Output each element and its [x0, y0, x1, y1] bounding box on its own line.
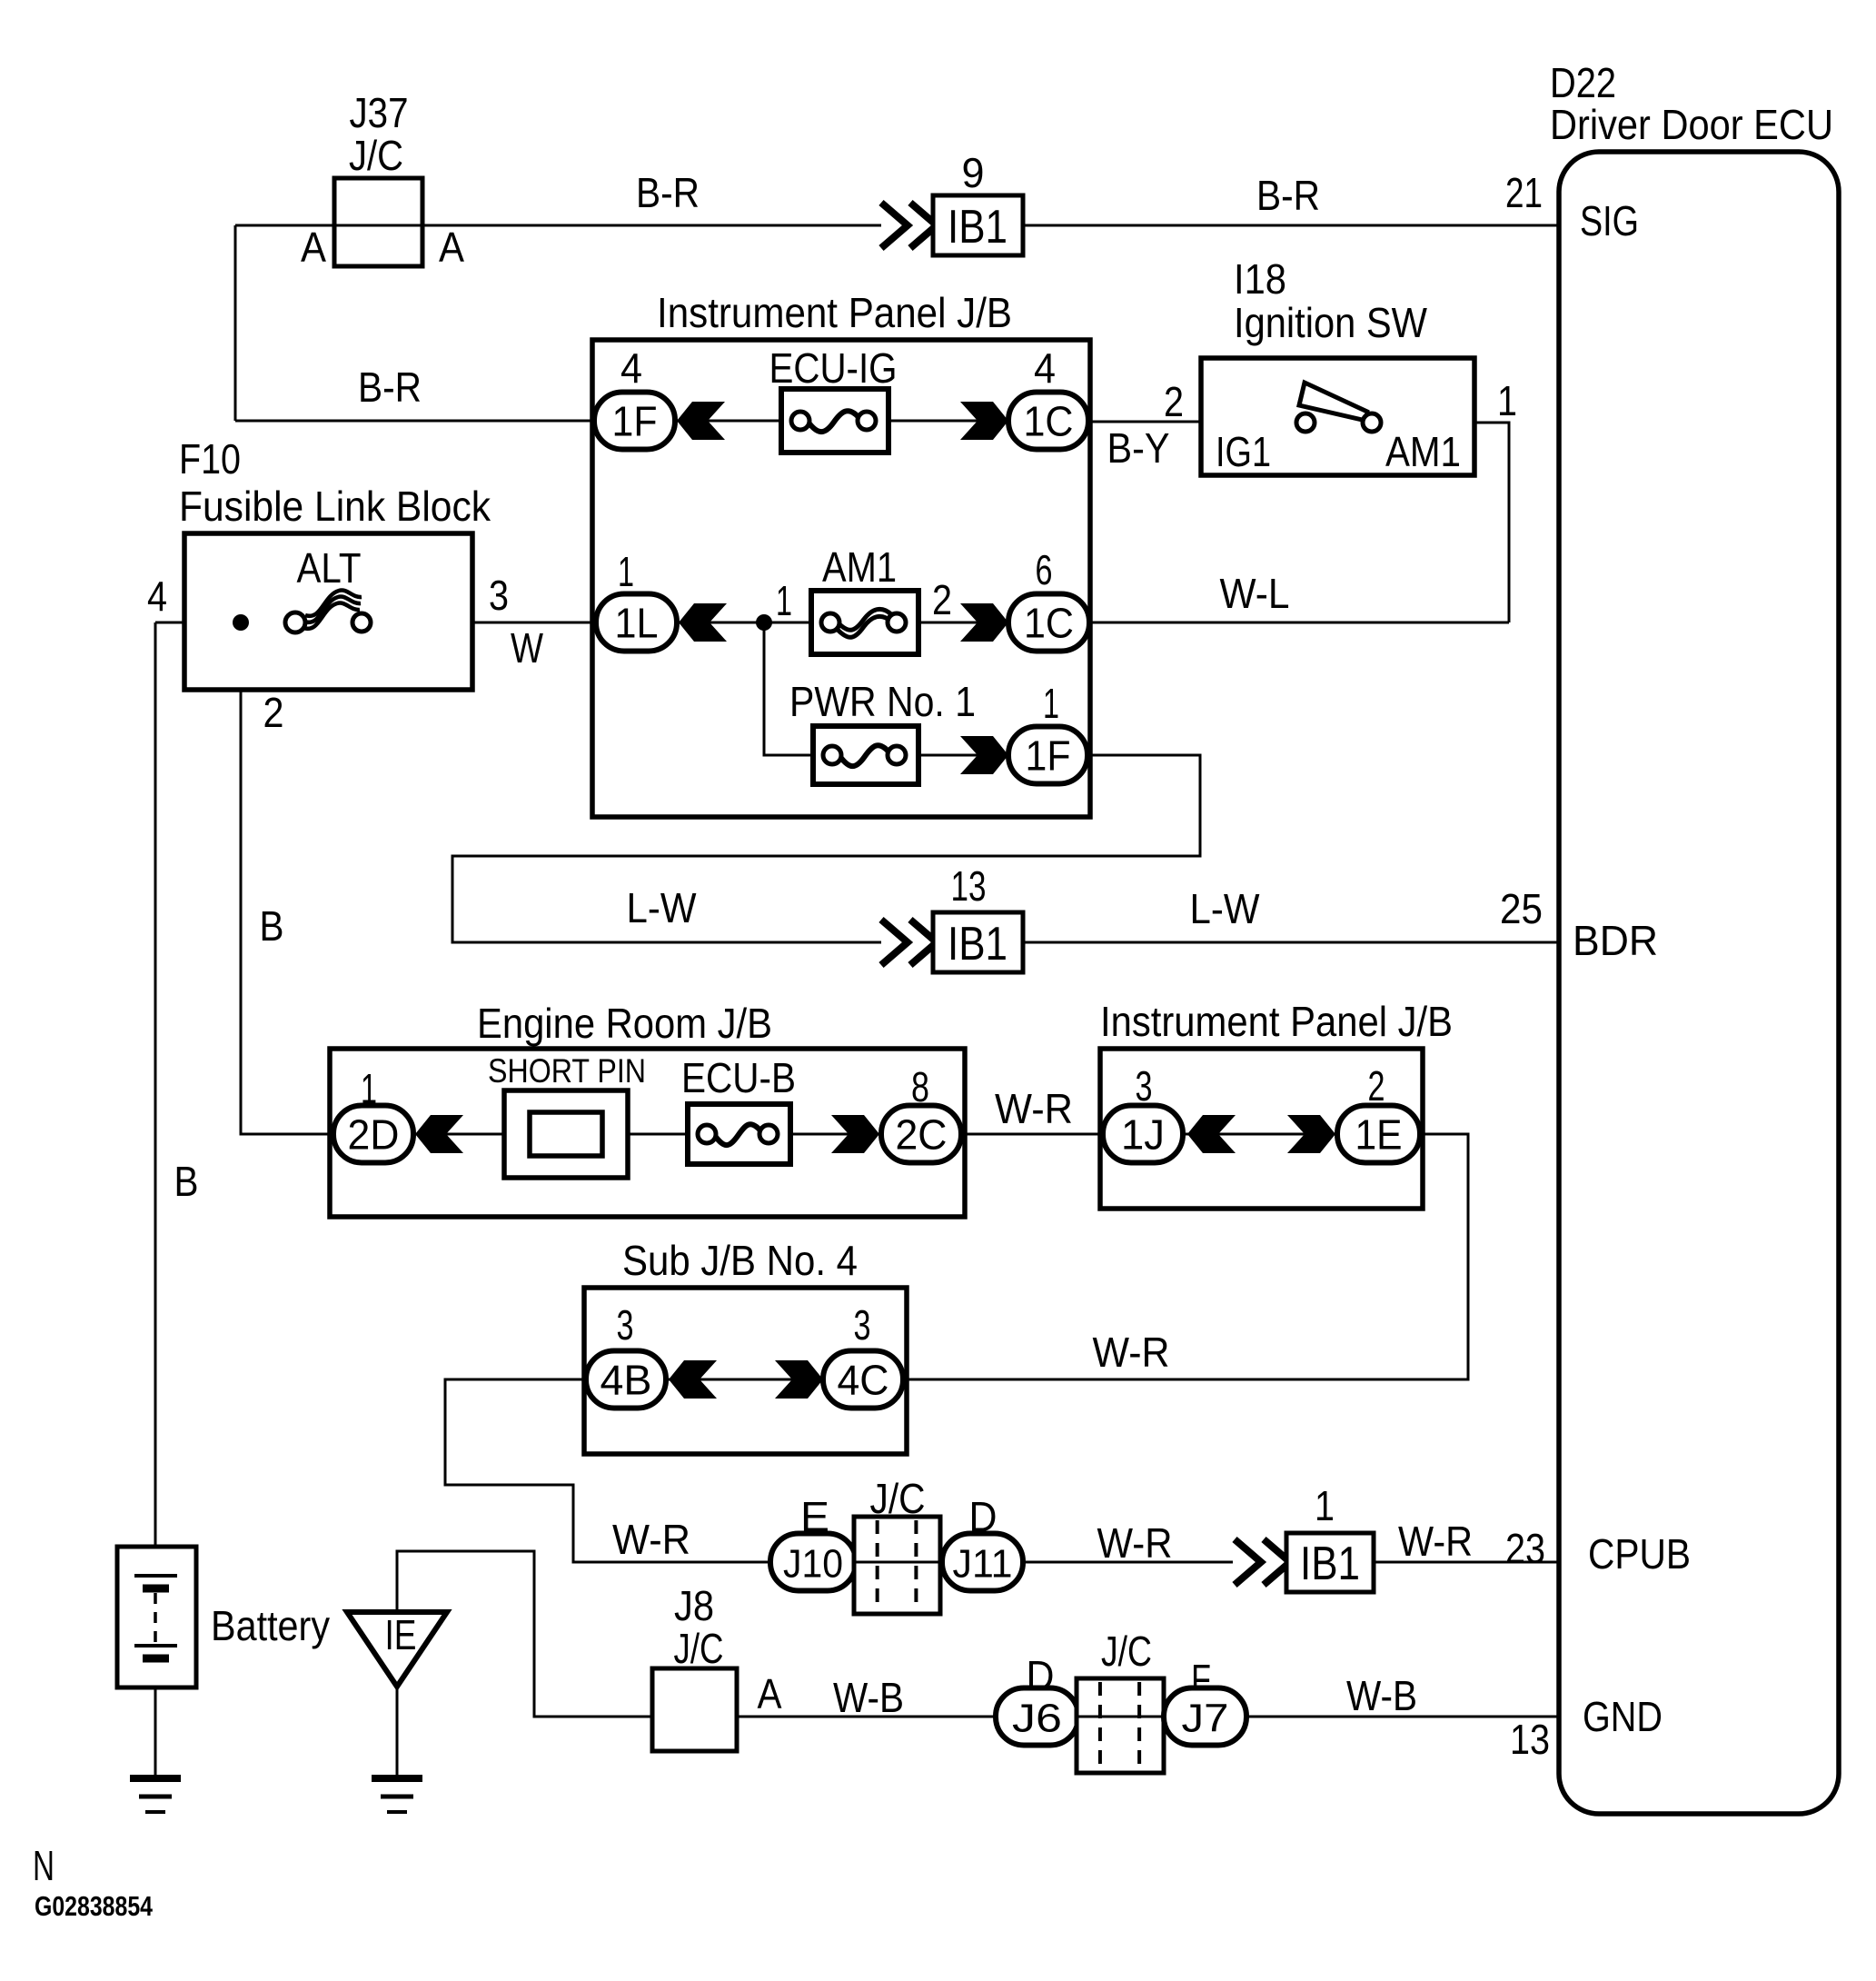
svg-text:Sub J/B No. 4: Sub J/B No. 4: [622, 1237, 858, 1284]
Sub J/B No.4 box: [584, 1288, 907, 1454]
svg-text:W-R: W-R: [612, 1516, 690, 1563]
wire W-B J7 to ECU pin 13 GND: [1246, 1716, 1559, 1718]
ignition switch lever: [1299, 383, 1367, 421]
svg-text:J10: J10: [783, 1542, 843, 1587]
wire B-R from IB1 to ECU pin 21 SIG: [1023, 224, 1559, 227]
wire AM1 fuse to 1C row2: [918, 622, 1008, 624]
svg-text:4: 4: [1034, 344, 1056, 392]
svg-text:1C: 1C: [1024, 600, 1074, 647]
wire B-Y 1C to Ignition SW: [1088, 421, 1201, 423]
svg-text:W-R: W-R: [1097, 1519, 1173, 1567]
svg-text:Instrument Panel J/B: Instrument Panel J/B: [1100, 998, 1453, 1045]
wire through J37: [334, 224, 422, 227]
svg-text:23: 23: [1505, 1525, 1545, 1572]
svg-text:1F: 1F: [1026, 732, 1071, 780]
svg-text:IG1: IG1: [1216, 428, 1271, 475]
ground connector IE triangle: [347, 1612, 447, 1687]
svg-text:25: 25: [1500, 885, 1543, 932]
wire W-R IB1 to ECU pin 23 CPUB: [1374, 1561, 1559, 1564]
svg-text:SIG: SIG: [1580, 197, 1639, 244]
Engine Room J/B box: [330, 1049, 965, 1217]
arrow into 2C: [831, 1115, 879, 1153]
connector 2C: [881, 1106, 961, 1163]
arrow into 1F row3: [960, 736, 1008, 774]
wire ECU-IG fuse to 1C: [888, 420, 1008, 423]
connector J11: [942, 1534, 1023, 1591]
arrow into 4B: [669, 1360, 717, 1399]
connector arrows into IB1 (CPUB): [1235, 1539, 1290, 1585]
svg-text:B-R: B-R: [358, 363, 422, 411]
wire B from F10 pin2 down to Engine Room J/B: [241, 622, 333, 1134]
svg-text:8: 8: [911, 1063, 929, 1110]
battery box: [117, 1547, 196, 1687]
svg-text:3: 3: [489, 572, 509, 619]
wire IE apex to ground: [396, 1688, 399, 1778]
svg-text:B-R: B-R: [1256, 172, 1320, 219]
battery plate short thick: [143, 1585, 169, 1593]
svg-text:6: 6: [1036, 546, 1053, 593]
wire short pin to ECU-B fuse: [626, 1133, 690, 1136]
short pin outer box: [504, 1090, 628, 1178]
svg-text:D22: D22: [1550, 59, 1616, 106]
svg-text:J/C: J/C: [870, 1475, 926, 1522]
svg-text:B-Y: B-Y: [1107, 424, 1170, 472]
arrow into 1E: [1287, 1115, 1335, 1153]
connector 4B: [586, 1351, 666, 1409]
svg-text:J37: J37: [350, 89, 409, 136]
svg-text:1: 1: [1043, 680, 1059, 727]
ECU D22 Driver Door ECU body: [1559, 152, 1839, 1814]
ignition switch I18 box: [1201, 358, 1474, 475]
svg-text:ALT: ALT: [297, 544, 362, 592]
connector arrows into IB1 (BDR): [881, 920, 937, 965]
wire ALT link to pin3 and 1L: [371, 622, 596, 624]
svg-text:2: 2: [932, 576, 952, 623]
svg-text:W: W: [511, 624, 543, 672]
wire J10 to J11 through J/C: [856, 1561, 942, 1564]
connector 1J: [1103, 1106, 1183, 1163]
svg-text:J/C: J/C: [349, 132, 403, 179]
wire inside ignition switch AM1 side: [1380, 422, 1474, 424]
arrow into 2D: [415, 1115, 463, 1153]
connector 1C row2: [1008, 594, 1089, 652]
svg-text:W-R: W-R: [1398, 1518, 1473, 1565]
wire J8 to J6 (W-B): [737, 1716, 996, 1718]
svg-text:9: 9: [962, 149, 985, 196]
svg-text:2D: 2D: [348, 1111, 400, 1159]
wire W-L ignition SW pin1 down: [1474, 423, 1509, 622]
wire B-R from J37 junction to IB1 (SIG net): [235, 224, 881, 227]
svg-text:GND: GND: [1583, 1693, 1663, 1740]
connector J6: [996, 1688, 1078, 1746]
svg-text:L-W: L-W: [627, 884, 698, 931]
svg-text:D: D: [969, 1493, 998, 1540]
junction block J/C (CPUB row): [854, 1517, 940, 1614]
svg-text:B-R: B-R: [636, 169, 700, 216]
svg-text:3: 3: [617, 1301, 634, 1349]
svg-text:Ignition SW: Ignition SW: [1234, 299, 1428, 346]
svg-text:4C: 4C: [838, 1357, 889, 1404]
junction block J/C (GND row): [1077, 1678, 1164, 1773]
connector IB1 (CPUB net): [1286, 1533, 1374, 1592]
svg-text:J8: J8: [674, 1582, 714, 1629]
wire B-R vertical drop from J37 wire: [234, 225, 237, 421]
svg-text:IB1: IB1: [1300, 1538, 1360, 1590]
fuse ECU-IG: [781, 389, 888, 453]
wire J6 to J7 through J/C: [1078, 1716, 1164, 1718]
svg-text:13: 13: [951, 862, 987, 910]
battery plate positive long: [134, 1574, 177, 1578]
wire PWR fuse to 1F row3: [918, 754, 1008, 757]
svg-text:F10: F10: [179, 435, 241, 483]
wire W-R J11 to IB1: [1023, 1561, 1233, 1564]
svg-text:Driver Door ECU: Driver Door ECU: [1550, 101, 1833, 148]
Instrument Panel J/B box (top): [592, 340, 1090, 817]
svg-text:1: 1: [1497, 377, 1517, 424]
svg-text:J/C: J/C: [674, 1625, 724, 1672]
wire L-W IB1 to ECU pin 25 BDR: [1023, 941, 1559, 944]
connector 1C row1: [1008, 393, 1088, 450]
svg-text:A: A: [439, 224, 464, 271]
svg-text:13: 13: [1510, 1716, 1550, 1763]
svg-text:Fusible Link Block: Fusible Link Block: [179, 483, 491, 530]
svg-text:21: 21: [1505, 169, 1543, 216]
fuse PWR No.1: [813, 726, 918, 784]
svg-text:1E: 1E: [1355, 1111, 1403, 1159]
wire 1F to ECU-IG fuse: [675, 420, 783, 423]
svg-text:AM1: AM1: [1385, 428, 1461, 475]
svg-text:3: 3: [1136, 1062, 1153, 1110]
wire F10 pin4 entry: [155, 622, 287, 624]
svg-text:1L: 1L: [615, 600, 659, 647]
fusible link ALT symbol: [285, 590, 371, 632]
svg-text:W-R: W-R: [995, 1085, 1073, 1132]
connector IB1 (SIG net): [933, 195, 1023, 255]
svg-text:W-B: W-B: [833, 1674, 904, 1721]
wire W-R 4B out left and down to J10: [445, 1379, 770, 1562]
fuse AM1: [811, 591, 918, 654]
svg-text:G02838854: G02838854: [35, 1890, 154, 1922]
wire L-W 1F out right and around: [452, 755, 1200, 942]
svg-text:W-L: W-L: [1220, 570, 1290, 617]
wire 1J to 1E inside Instrument Panel J/B: [1183, 1133, 1337, 1136]
arrow into 1J: [1187, 1115, 1236, 1153]
wire W-L 1C to ignition switch feed: [1090, 622, 1509, 624]
svg-text:L-W: L-W: [1190, 885, 1261, 932]
svg-text:4: 4: [147, 572, 167, 620]
svg-text:PWR No. 1: PWR No. 1: [789, 678, 976, 725]
svg-text:1J: 1J: [1121, 1111, 1165, 1159]
arrow into 1C row1: [960, 402, 1008, 440]
fuse ECU-B: [688, 1104, 790, 1164]
svg-text:W-B: W-B: [1346, 1672, 1417, 1719]
connector J10: [770, 1534, 856, 1591]
svg-text:N: N: [33, 1842, 55, 1889]
svg-text:B: B: [174, 1158, 199, 1205]
svg-text:E: E: [800, 1493, 829, 1540]
connector J7: [1164, 1688, 1246, 1746]
svg-text:SHORT PIN: SHORT PIN: [488, 1052, 646, 1090]
svg-text:A: A: [301, 224, 326, 271]
ignition switch contact AM1: [1363, 413, 1381, 432]
svg-text:2: 2: [263, 689, 284, 736]
arrow into 4C: [775, 1360, 823, 1399]
arrow into 1C row2: [960, 603, 1008, 642]
junction connector J8 box: [652, 1668, 737, 1751]
svg-text:I18: I18: [1234, 255, 1286, 303]
connector 1L: [596, 594, 677, 652]
battery plate short thick 2: [143, 1655, 169, 1663]
wire B-R to Instrument Panel J/B 1F: [235, 420, 594, 423]
svg-text:J6: J6: [1012, 1697, 1062, 1741]
svg-text:BDR: BDR: [1573, 917, 1658, 964]
svg-text:1: 1: [1315, 1482, 1335, 1529]
junction connector J37 J/C box: [334, 178, 422, 266]
svg-text:2C: 2C: [896, 1111, 948, 1159]
connector arrows into IB1 (SIG): [881, 203, 937, 248]
wire 2D to short pin: [413, 1133, 506, 1136]
connector 1F row1: [594, 393, 675, 450]
svg-text:B: B: [260, 902, 284, 950]
wire ECU-B fuse to 2C: [789, 1133, 881, 1136]
junction dot AM1/PWR: [756, 614, 772, 631]
svg-text:4: 4: [620, 344, 642, 392]
junction dot in F10: [233, 614, 249, 631]
svg-text:1: 1: [776, 577, 792, 624]
svg-text:Battery: Battery: [211, 1602, 330, 1649]
svg-text:Engine Room J/B: Engine Room J/B: [477, 1000, 772, 1047]
wire battery negative to ground: [154, 1657, 157, 1778]
svg-text:1: 1: [361, 1065, 377, 1112]
wire W-R 2C to 1J: [961, 1133, 1103, 1136]
battery plate positive long 2: [134, 1644, 177, 1648]
short pin inner box: [530, 1112, 602, 1156]
svg-text:1C: 1C: [1024, 398, 1074, 445]
arrow into 1F: [677, 402, 725, 440]
svg-text:IB1: IB1: [948, 918, 1007, 971]
wire IE triangle to J8: [397, 1551, 652, 1717]
connector 2D: [333, 1106, 413, 1163]
arrow into 1L: [679, 603, 727, 642]
svg-text:W-R: W-R: [1093, 1329, 1170, 1376]
fusible link block F10 box: [184, 533, 472, 690]
Instrument Panel J/B box (second): [1100, 1049, 1423, 1209]
wire inside ignition switch IG1 side: [1201, 422, 1297, 424]
ground symbol under battery: [130, 1778, 181, 1812]
connector 1E: [1337, 1106, 1420, 1163]
wire battery feed B vertical from F10 pin4: [154, 622, 157, 1576]
battery dashed center line: [154, 1593, 157, 1647]
connector 4C: [823, 1351, 903, 1409]
svg-text:1F: 1F: [612, 398, 658, 445]
connector IB1 (BDR net): [933, 912, 1023, 972]
ignition switch contact IG1: [1296, 413, 1315, 432]
svg-text:J11: J11: [953, 1542, 1013, 1587]
svg-text:IE: IE: [385, 1611, 417, 1658]
connector 1F row3: [1008, 727, 1087, 784]
svg-text:Instrument Panel J/B: Instrument Panel J/B: [657, 289, 1012, 336]
svg-text:ECU-IG: ECU-IG: [769, 344, 898, 392]
svg-text:J/C: J/C: [1101, 1628, 1152, 1675]
svg-text:2: 2: [1164, 378, 1184, 425]
svg-text:1: 1: [618, 548, 634, 595]
svg-text:A: A: [758, 1670, 782, 1717]
svg-text:J7: J7: [1182, 1697, 1229, 1741]
svg-text:AM1: AM1: [822, 543, 897, 591]
wire W-R 1E down to 4C: [903, 1134, 1468, 1379]
svg-text:3: 3: [854, 1301, 871, 1349]
ground symbol under IE: [372, 1778, 422, 1812]
svg-text:IB1: IB1: [948, 201, 1007, 254]
wire 1L to AM1 junction: [677, 622, 814, 624]
wire 4B to 4C inside Sub J/B: [666, 1379, 823, 1381]
svg-text:ECU-B: ECU-B: [681, 1054, 796, 1101]
svg-text:2: 2: [1368, 1062, 1385, 1110]
svg-text:4B: 4B: [601, 1357, 652, 1404]
svg-text:CPUB: CPUB: [1588, 1530, 1691, 1578]
wire AM1 junction down to PWR No.1 fuse: [764, 622, 815, 755]
